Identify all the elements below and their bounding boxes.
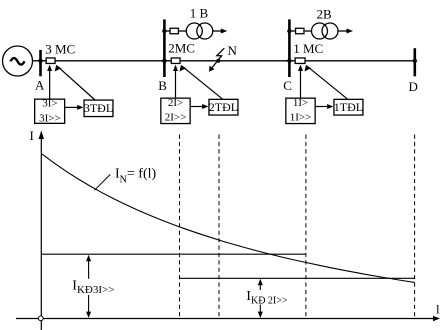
svg-text:1 MC: 1 MC: [293, 41, 323, 56]
svg-text:2I>>: 2I>>: [165, 112, 187, 124]
svg-text:I: I: [30, 128, 34, 143]
svg-text:1I>>: 1I>>: [290, 112, 312, 124]
svg-text:D: D: [409, 79, 418, 94]
svg-text:2MC: 2MC: [168, 41, 195, 56]
svg-text:3I>>: 3I>>: [39, 112, 61, 124]
svg-text:C: C: [283, 78, 292, 93]
svg-text:A: A: [35, 77, 45, 92]
svg-text:N: N: [228, 43, 238, 58]
svg-text:1 B: 1 B: [190, 6, 209, 21]
svg-text:1TĐL: 1TĐL: [334, 100, 363, 114]
svg-text:3 MC: 3 MC: [45, 41, 75, 56]
svg-text:1I>: 1I>: [293, 97, 308, 109]
svg-text:2I>: 2I>: [168, 97, 183, 109]
svg-text:l: l: [436, 301, 440, 316]
svg-text:2TĐL: 2TĐL: [209, 100, 238, 114]
svg-text:3I>: 3I>: [42, 98, 57, 110]
svg-text:B: B: [158, 78, 167, 93]
svg-text:2B: 2B: [317, 7, 333, 22]
svg-text:3TĐL: 3TĐL: [84, 101, 113, 115]
